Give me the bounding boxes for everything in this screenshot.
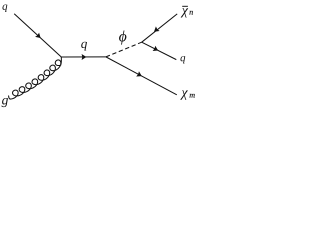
- arrow on quark propagator: [82, 54, 87, 60]
- chi_m line: [106, 57, 177, 95]
- label q (outgoing quark): [180, 56, 185, 63]
- label g: [2, 98, 8, 107]
- arrow on chi_m line: [136, 71, 142, 76]
- label chi (of chi_m): [180, 90, 188, 99]
- chi-bar_n line: [142, 14, 178, 42]
- gluon: [9, 57, 62, 99]
- label subscript n: [189, 11, 192, 15]
- arrow on chi-bar_n line (points toward vertex): [154, 26, 160, 31]
- arrow on incoming quark: [35, 33, 41, 38]
- label subscript m: [190, 94, 195, 98]
- label phi: [119, 30, 126, 44]
- label q (propagator): [81, 42, 87, 51]
- scalar mediator phi (dashed propagator): [106, 42, 142, 57]
- incoming quark line: [14, 14, 61, 57]
- label chi (of chi-bar_n): [181, 8, 188, 17]
- quark propagator: [61, 56, 106, 58]
- outgoing quark line: [142, 42, 177, 59]
- arrow on outgoing quark: [153, 46, 159, 51]
- label q (incoming quark): [2, 5, 7, 13]
- label chi-bar (bar): [182, 5, 188, 7]
